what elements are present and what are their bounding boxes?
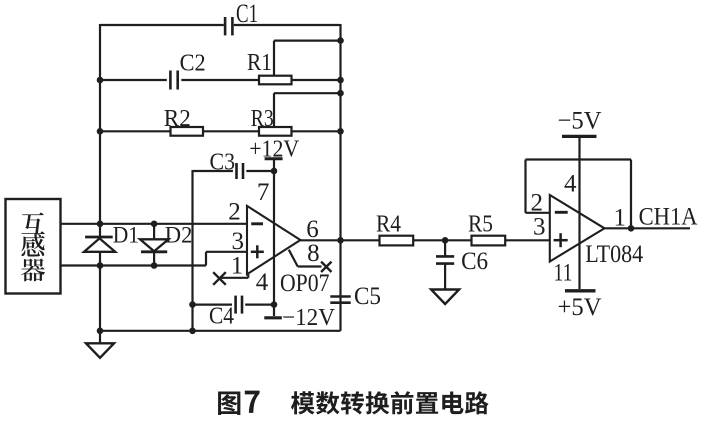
svg-text:D2: D2	[165, 223, 193, 248]
diode D2	[140, 239, 169, 251]
capacitor C6	[444, 240, 446, 256]
svg-text:C5: C5	[354, 283, 381, 310]
node: C4 right / pin4 junction	[271, 301, 278, 308]
svg-text:C3: C3	[210, 150, 236, 176]
svg-text:4: 4	[564, 171, 577, 198]
node: left rail / pin2 wire	[97, 221, 104, 228]
resistor R2	[171, 127, 204, 136]
svg-text:6: 6	[306, 216, 319, 243]
capacitor C4	[193, 304, 233, 306]
svg-text:7: 7	[257, 179, 270, 206]
svg-text:C6: C6	[461, 248, 488, 275]
wire: LT084 feedback loop	[526, 158, 632, 160]
resistor R4	[380, 236, 414, 246]
node: ground bus left	[97, 328, 104, 335]
svg-text:+5V: +5V	[558, 294, 602, 321]
pin 1 stub with X	[220, 277, 249, 279]
svg-text:C1: C1	[236, 0, 258, 28]
svg-text:D1: D1	[113, 223, 139, 248]
node: C4 left junction	[189, 301, 196, 308]
svg-text:R1: R1	[247, 50, 272, 76]
resistor R3	[259, 127, 292, 136]
wire: top C1 loop left segment	[100, 24, 224, 26]
svg-text:LT084: LT084	[585, 241, 643, 268]
op-amp U2 LT084 triangle	[550, 195, 605, 262]
caption 图7 模数转换前置电路	[218, 392, 240, 415]
svg-text:−5V: −5V	[558, 108, 602, 135]
svg-text:C2: C2	[180, 51, 206, 77]
pin 2 stub LT084	[526, 212, 550, 214]
wire: R1 bypass loop	[274, 39, 341, 41]
svg-text:R2: R2	[164, 106, 191, 132]
diode D1	[85, 236, 113, 239]
svg-text:R5: R5	[468, 212, 493, 238]
node: pin7/+12V/C3 junction	[271, 168, 278, 175]
node: D2 top	[151, 221, 158, 228]
node: R1 loop / right rail	[337, 37, 344, 44]
svg-text:R3: R3	[251, 106, 274, 132]
wire: top C1 loop right segment	[234, 24, 341, 26]
capacitor C2	[169, 71, 172, 90]
svg-text:1: 1	[231, 253, 244, 280]
wire: ground vertical (C3/C4 left)	[191, 170, 193, 331]
wire: right rail	[339, 24, 341, 296]
svg-text:R4: R4	[376, 212, 401, 238]
wire: R5 to LT084 pin 3	[505, 239, 550, 241]
minus sign OP07	[251, 222, 263, 225]
ground symbol under C6	[431, 290, 459, 305]
svg-text:OP07: OP07	[280, 270, 330, 297]
plus sign LT084	[554, 239, 568, 242]
resistor R5	[472, 236, 506, 246]
node: R4/R5/C6 junction	[442, 237, 449, 244]
svg-text:3: 3	[232, 228, 245, 255]
wire: C3 row	[193, 170, 233, 172]
svg-text:2: 2	[228, 199, 241, 226]
node: right rail / R1 row	[337, 77, 344, 84]
node: ground bus / C4 vertical	[189, 328, 196, 335]
supply -12V	[264, 316, 282, 319]
svg-text:3: 3	[533, 214, 546, 241]
svg-text:−12V: −12V	[282, 305, 336, 331]
resistor R1	[259, 76, 292, 85]
transformer box 互感器	[6, 199, 61, 294]
wire: ground bus bottom	[100, 330, 341, 332]
wire: transformer bottom wire	[61, 264, 207, 266]
wire: pin7/pin4 vertical through op-amp	[273, 171, 275, 316]
wire: R2/R3 row	[100, 130, 171, 132]
svg-text:CH1A: CH1A	[639, 204, 698, 231]
svg-text:1: 1	[614, 205, 627, 232]
wire: C2/R1 row	[100, 79, 167, 81]
minus sign LT084	[555, 211, 568, 214]
capacitor C5	[339, 296, 341, 303]
svg-text:11: 11	[554, 260, 573, 287]
capacitor C1	[224, 17, 227, 35]
supply +5V	[565, 289, 596, 292]
svg-text:4: 4	[256, 269, 269, 296]
plus sign OP07	[251, 251, 264, 254]
node: left rail / C2 row	[97, 77, 104, 84]
ground symbol left	[99, 331, 101, 344]
wire: op-amp output row	[300, 239, 379, 241]
capacitor C3	[235, 163, 238, 179]
op-amp U1 OP07 triangle	[247, 206, 300, 274]
node: D2 bottom	[151, 262, 158, 269]
wire: left rail	[99, 24, 101, 331]
node: output / feedback	[628, 225, 635, 232]
wire: step up to pin 3	[205, 252, 207, 266]
wire: transformer top wire to pin 2	[61, 223, 248, 225]
node: left rail / bottom wire	[97, 262, 104, 269]
node: right rail / R3 row	[337, 128, 344, 135]
pin 8 stub with X	[289, 250, 298, 267]
wire: power vertical LT084	[578, 138, 580, 289]
svg-text:8: 8	[307, 240, 320, 267]
node: R3 loop / right rail	[337, 90, 344, 97]
node: left rail / R2 row	[97, 128, 104, 135]
wire: LT084 output CH1A	[605, 227, 691, 229]
svg-text:C4: C4	[209, 304, 234, 330]
wire: R3 bypass loop	[274, 92, 341, 94]
node: output / right rail	[337, 237, 344, 244]
